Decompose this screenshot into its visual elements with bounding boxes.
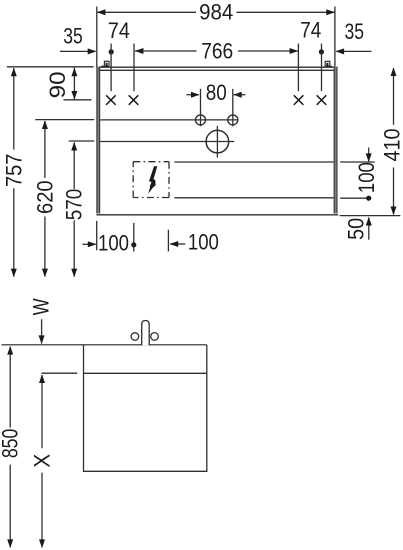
fixing point extension line B <box>133 44 135 92</box>
dimension 100 right line <box>368 148 370 162</box>
fixing cross 1 <box>106 95 116 105</box>
dimension 74 right dot <box>319 49 324 54</box>
bottom extension stub left <box>96 221 98 250</box>
dimension 984 line <box>97 11 196 13</box>
dimension 570 extension line <box>69 140 95 142</box>
right bottom extension line <box>340 215 401 217</box>
cabinet bottom edge <box>96 214 338 216</box>
dimension 35 left arrow <box>60 50 96 52</box>
dimension 100 bottom dot <box>131 242 136 247</box>
electrical box dash-dot outline <box>133 161 169 163</box>
siphon space line upper <box>174 161 333 163</box>
countertop top extension line <box>7 66 94 68</box>
svg-text:766: 766 <box>201 38 233 63</box>
fixing cross 4 <box>317 95 327 105</box>
svg-text:100: 100 <box>188 230 219 255</box>
dimension 766 line <box>135 50 197 52</box>
svg-text:74: 74 <box>108 18 130 43</box>
right side panel <box>334 67 338 214</box>
tap body <box>142 321 150 346</box>
dimension 50 line <box>368 218 370 240</box>
extension line right of 984 <box>334 7 336 67</box>
right mounting step <box>325 65 332 67</box>
drain hole <box>206 130 229 153</box>
svg-text:74: 74 <box>300 18 321 43</box>
svg-text:620: 620 <box>32 180 57 214</box>
left mounting step <box>102 65 110 67</box>
dimension W arrow <box>41 319 43 343</box>
fixing cross 3 <box>294 95 304 105</box>
dimension X line <box>41 375 43 448</box>
svg-text:90: 90 <box>45 71 70 98</box>
dimension 850 line <box>9 347 11 428</box>
countertop reference line <box>2 344 207 346</box>
tap hole circle rear <box>131 333 139 341</box>
svg-text:80: 80 <box>206 80 227 105</box>
dimension 100 bottom dot line <box>133 223 135 252</box>
svg-text:100: 100 <box>98 230 129 255</box>
tap hole left <box>196 115 206 125</box>
right mounting bracket <box>325 61 330 66</box>
siphon space line lower <box>174 197 333 199</box>
svg-text:850: 850 <box>0 429 23 459</box>
svg-text:50: 50 <box>344 218 369 240</box>
countertop front edge <box>100 66 334 68</box>
fixing point extension line C <box>297 44 299 92</box>
fixing point extension line D <box>321 44 323 92</box>
left side panel <box>96 67 100 214</box>
svg-text:35: 35 <box>344 19 364 44</box>
svg-text:757: 757 <box>1 154 26 188</box>
dimension X extension line <box>42 372 78 374</box>
dimension 100 bottom-mid arrow <box>170 243 185 245</box>
cabinet side view front rail line <box>84 372 207 374</box>
svg-text:570: 570 <box>62 189 87 221</box>
dimension 90 bottom extension line <box>64 99 92 101</box>
drain hole centerline <box>216 126 218 158</box>
cabinet side view outline <box>84 345 207 472</box>
tap hole right <box>228 115 238 125</box>
dimension 80 arrows <box>187 94 199 96</box>
svg-text:984: 984 <box>199 0 233 25</box>
tap hole circle front <box>151 333 159 341</box>
tap hole centerline right <box>232 89 234 127</box>
svg-text:100: 100 <box>354 162 379 193</box>
dimension 100 right dot <box>366 196 371 201</box>
fixing point extension line A <box>110 44 112 92</box>
dimension 100 bottom-left arrow <box>83 243 96 245</box>
dimension 757 line <box>13 68 15 149</box>
dimension 90 line <box>73 68 75 100</box>
extension line left of 984 <box>96 7 98 67</box>
svg-text:410: 410 <box>379 129 403 162</box>
svg-text:W: W <box>29 298 54 315</box>
left mounting bracket <box>104 61 109 66</box>
dimension 620 extension line <box>35 119 94 121</box>
fixing cross 2 <box>129 95 139 105</box>
dimension 35 right arrow <box>336 50 371 52</box>
dimension 74 left dot <box>109 49 114 54</box>
svg-text:35: 35 <box>63 23 83 48</box>
shelf line lower <box>100 141 234 143</box>
bottom extension stub mid <box>167 230 169 252</box>
dimension 410 line <box>393 68 395 125</box>
dimension 620 line <box>44 121 46 178</box>
electrical flash symbol <box>148 166 157 193</box>
svg-text:X: X <box>29 454 54 468</box>
dimension 570 line <box>73 142 75 188</box>
tap hole centerline left <box>200 89 202 127</box>
shelf line upper <box>100 119 238 121</box>
